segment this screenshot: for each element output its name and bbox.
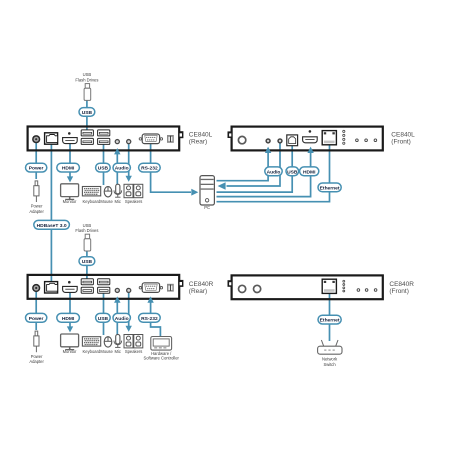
svg-text:HDBaseT 3.0: HDBaseT 3.0	[37, 223, 67, 229]
svg-text:USB: USB	[83, 223, 92, 228]
node label Ethernet (CE840L front pill)	[318, 183, 341, 192]
wire front-panel Ethernet to PC	[217, 143, 330, 202]
label CE840R (Rear)	[189, 281, 214, 295]
monitor icon (bottom)	[61, 334, 79, 350]
keyboard icon (top)	[82, 187, 100, 196]
audio jack speaker (CE840L rear)	[126, 139, 131, 144]
label CE840L (Rear)	[189, 132, 213, 146]
grounding tab CE840R front	[228, 280, 232, 287]
audio jack speaker (CE840L front)	[277, 138, 282, 143]
wire HDMI to monitor (CE840L)	[69, 141, 71, 178]
svg-text:Monitor: Monitor	[63, 349, 77, 354]
panel border CE840R rear	[28, 275, 180, 299]
RJ45 HDBaseT port (CE840R rear)	[45, 282, 58, 293]
audio jack mic (CE840L front)	[265, 138, 270, 143]
label Hardware / Software Controller	[143, 351, 179, 361]
node label RS-232 (CE840R pill)	[139, 313, 161, 322]
wire Power (CE840L)	[35, 140, 37, 179]
power jack DC-in (CE840L rear)	[32, 135, 40, 143]
power jack DC-in (CE840R rear)	[32, 284, 40, 292]
node label USB (top pill)	[79, 108, 95, 117]
microphone icon (bottom)	[114, 334, 122, 347]
grounding tab CE840L front	[228, 131, 232, 138]
wire Ethernet CE840R front to network switch	[329, 292, 331, 341]
node label USB (CE840L pill)	[96, 163, 111, 172]
label Power Adapter (top)	[29, 204, 44, 214]
USB type-B port (CE840L front)	[287, 135, 298, 146]
panel border CE840R front	[232, 275, 383, 299]
svg-text:Mouse: Mouse	[100, 349, 113, 354]
wire front-panel audio speakers to PC	[227, 142, 281, 186]
svg-text:Flash Drives: Flash Drives	[75, 77, 98, 82]
network switch icon	[318, 340, 342, 354]
USB ports stack 2 (CE840R rear)	[98, 279, 110, 294]
svg-text:Mic: Mic	[114, 199, 120, 204]
svg-text:Mouse: Mouse	[100, 199, 113, 204]
svg-text:HDMI: HDMI	[62, 166, 75, 172]
node label Audio (CE840R pill)	[113, 313, 130, 322]
monitor icon (top)	[61, 184, 79, 200]
panel fill CE840L rear	[28, 127, 180, 151]
keyboard icon (bottom)	[82, 337, 100, 346]
svg-text:(Front): (Front)	[389, 288, 409, 295]
node label Ethernet (CE840R front pill)	[318, 315, 341, 324]
panel fill CE840R front	[232, 275, 383, 299]
node label USB (bottom pill)	[79, 257, 95, 266]
arrow up audio mic into CE840L front	[265, 147, 271, 153]
svg-text:Adapter: Adapter	[29, 359, 44, 364]
svg-text:Power: Power	[31, 354, 43, 359]
svg-text:Software Controller: Software Controller	[143, 356, 179, 361]
svg-text:HDMI: HDMI	[62, 316, 75, 322]
grounding tab CE840L rear	[180, 131, 184, 138]
svg-text:Keyboard: Keyboard	[83, 199, 101, 204]
wire Power (CE840R)	[35, 289, 37, 330]
USB ports stack 2 (CE840L rear)	[98, 130, 110, 145]
arrow up audio mic into CE840L rear	[114, 148, 120, 154]
svg-text:Speakers: Speakers	[125, 199, 143, 204]
power button 2 (CE840R front)	[254, 285, 261, 292]
hardware/software controller icon	[151, 337, 172, 351]
svg-text:Power: Power	[29, 316, 44, 322]
PC tower icon	[200, 176, 214, 205]
mouse icon (bottom)	[104, 337, 112, 347]
label Network Switch	[322, 356, 338, 366]
HDMI port (CE840R rear)	[63, 281, 78, 292]
svg-text:CE840L: CE840L	[189, 132, 213, 139]
node label Power (CE840L pill)	[26, 163, 47, 172]
svg-text:Network: Network	[322, 356, 338, 361]
wire USB flash drive to CE840R rear USB port	[86, 250, 88, 281]
node label HDBaseT 3.0 (pill)	[34, 220, 70, 229]
power button (CE840L front)	[238, 136, 245, 143]
svg-text:Ethernet: Ethernet	[320, 318, 340, 324]
LED indicator column (CE840L front)	[343, 130, 345, 144]
panel border CE840L rear	[28, 127, 180, 151]
svg-text:Mic: Mic	[114, 349, 120, 354]
wire RS-232 to controller (CE840R)	[151, 301, 161, 337]
node label Audio (CE840L pill)	[113, 163, 130, 172]
arrow down audio to speakers (CE840R)	[126, 326, 132, 332]
svg-text:Power: Power	[29, 166, 44, 172]
USB flash drive (top)	[84, 84, 91, 101]
mouse icon (top)	[104, 187, 112, 197]
arrow down HDMI to monitor (CE840R)	[67, 326, 73, 332]
svg-text:CE840R: CE840R	[189, 281, 214, 288]
svg-text:Audio: Audio	[115, 316, 129, 322]
USB ports stack 1 (CE840L rear)	[81, 130, 93, 145]
svg-text:HDMI: HDMI	[303, 169, 316, 175]
svg-text:Ethernet: Ethernet	[320, 186, 340, 192]
RJ45 Ethernet port (CE840L front)	[322, 131, 336, 145]
node label HDMI (CE840R pill)	[57, 313, 80, 322]
svg-text:(Front): (Front)	[391, 139, 411, 146]
label CE840L (Front)	[391, 132, 415, 146]
audio jack mic (CE840R rear)	[115, 288, 120, 293]
power button 1 (CE840R front)	[239, 285, 246, 292]
svg-text:(Rear): (Rear)	[189, 288, 207, 295]
RJ45 HDBaseT port (CE840L rear)	[45, 133, 58, 144]
label USB Flash Drive (bottom)	[75, 223, 98, 233]
DB9 RS-232 port (CE840L rear)	[139, 134, 162, 144]
svg-text:Keyboard: Keyboard	[83, 349, 101, 354]
wire front-panel USB to PC	[217, 144, 293, 192]
wire front-panel HDMI to PC	[217, 150, 311, 197]
wire USB flash drive to CE840L rear USB port	[86, 100, 88, 133]
node label Audio (CE840L front pill)	[265, 167, 282, 176]
RJ45 Ethernet port (CE840R front)	[322, 279, 336, 293]
HDMI port (CE840L front)	[303, 130, 318, 143]
svg-text:Monitor: Monitor	[63, 199, 77, 204]
arrow down audio to speakers (CE840L)	[126, 176, 132, 182]
wire front-panel audio mic to PC	[217, 150, 269, 181]
svg-text:CE840L: CE840L	[391, 132, 415, 139]
microphone icon (top)	[114, 184, 122, 197]
wire Audio speakers (CE840R)	[128, 291, 130, 327]
arrow left audio into PC	[218, 182, 226, 190]
audio jack speaker (CE840R rear)	[126, 288, 131, 293]
arrow up RS-232 into CE840R rear	[147, 296, 153, 302]
svg-text:CE840R: CE840R	[389, 281, 414, 288]
svg-text:USB: USB	[82, 259, 93, 265]
panel border CE840L front	[232, 127, 383, 151]
svg-text:Power: Power	[31, 204, 43, 209]
wire Audio mic (CE840R)	[116, 301, 118, 335]
power adapter icon (bottom)	[34, 331, 39, 352]
LED dots row (CE840L front)	[356, 139, 377, 142]
label Power Adapter (bottom)	[29, 354, 44, 364]
svg-text:Flash Drives: Flash Drives	[75, 228, 98, 233]
USB flash drive (bottom)	[84, 234, 91, 251]
arrow up HDMI into CE840L front	[307, 147, 313, 153]
audio jack mic (CE840L rear)	[115, 139, 120, 144]
label USB Flash Drive (top)	[75, 72, 98, 82]
USB ports stack 1 (CE840R rear)	[81, 279, 93, 294]
svg-text:USB: USB	[82, 110, 93, 116]
DB9 RS-232 port (CE840R rear)	[139, 283, 162, 293]
wire RS-232 to PC	[151, 141, 191, 192]
svg-text:PC: PC	[204, 205, 210, 210]
svg-text:Speakers: Speakers	[125, 349, 143, 354]
LED indicator column (CE840R front)	[343, 280, 345, 292]
svg-text:Switch: Switch	[323, 362, 336, 367]
power adapter icon (top)	[34, 181, 39, 202]
node label USB (CE840L front pill)	[286, 167, 299, 176]
arrow right RS-232 into PC	[191, 189, 198, 196]
terminal block (CE840R rear)	[167, 284, 174, 292]
speakers icon (top)	[124, 184, 143, 197]
arrow down HDMI to monitor (CE840L)	[67, 176, 73, 182]
svg-text:USB: USB	[287, 169, 298, 175]
node label HDMI (CE840L pill)	[57, 163, 80, 172]
wire Audio mic (CE840L)	[116, 152, 118, 185]
node label Power (CE840R pill)	[26, 313, 47, 322]
node label HDMI (CE840L front pill)	[300, 167, 319, 176]
panel fill CE840R rear	[28, 275, 180, 299]
svg-text:Audio: Audio	[267, 169, 281, 175]
arrow up audio mic into CE840R rear	[114, 296, 120, 302]
node label RS-232 (CE840L pill)	[139, 163, 161, 172]
node label USB (CE840R pill)	[96, 313, 111, 322]
svg-text:RS-232: RS-232	[141, 166, 158, 172]
svg-text:Audio: Audio	[115, 166, 129, 172]
svg-text:(Rear): (Rear)	[189, 139, 207, 146]
wire HDMI to monitor (CE840R)	[69, 290, 71, 328]
wire USB to keyboard/mouse (CE840R)	[103, 290, 105, 335]
LED dots row (CE840R front)	[357, 289, 377, 292]
svg-text:RS-232: RS-232	[141, 316, 158, 322]
wire Audio speakers (CE840L)	[128, 142, 130, 177]
grounding tab CE840R rear	[180, 280, 184, 287]
svg-text:Adapter: Adapter	[29, 209, 44, 214]
label CE840R (Front)	[389, 281, 414, 295]
svg-text:USB: USB	[98, 166, 109, 172]
HDMI port (CE840L rear)	[63, 132, 78, 144]
panel fill CE840L front	[232, 127, 383, 151]
svg-text:USB: USB	[98, 316, 109, 322]
terminal block (CE840L rear)	[167, 135, 174, 143]
wire HDBaseT link CE840L to CE840R	[50, 141, 52, 287]
speakers icon (bottom)	[124, 335, 143, 348]
wire USB to keyboard/mouse (CE840L)	[103, 141, 105, 185]
